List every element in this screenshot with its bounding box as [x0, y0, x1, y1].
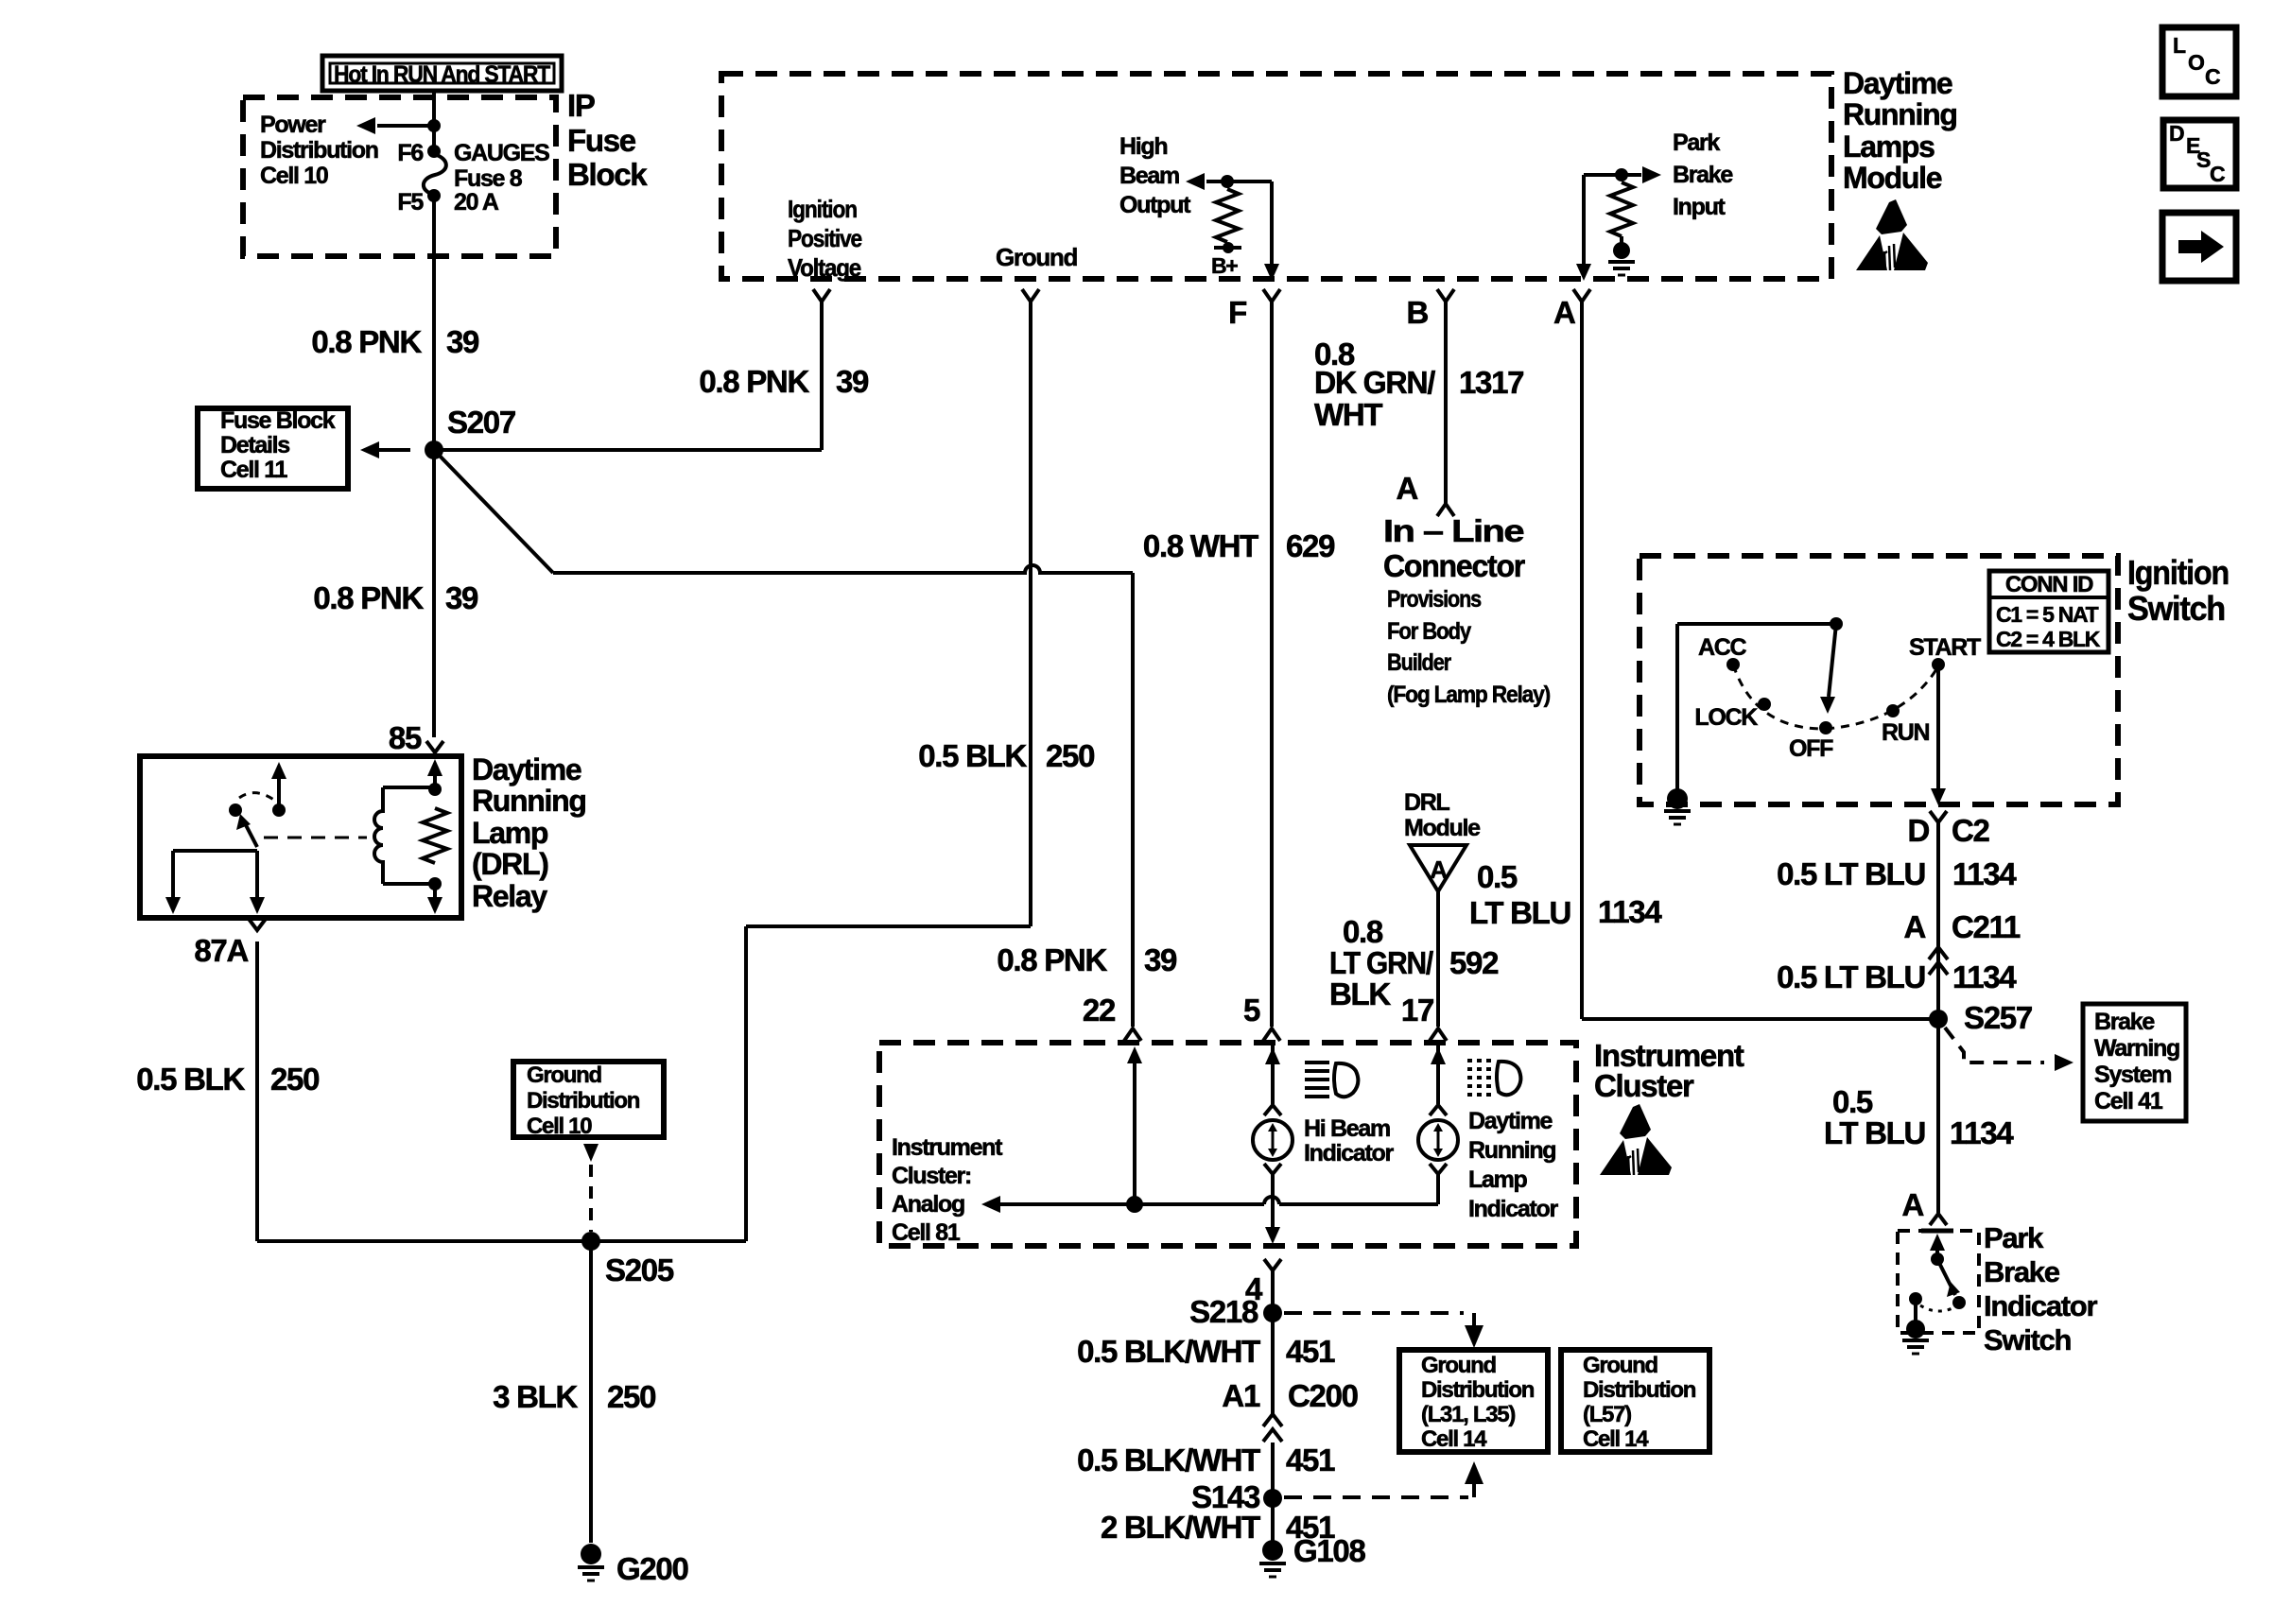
svg-text:START: START	[1909, 634, 1981, 661]
svg-text:Cell 81: Cell 81	[892, 1219, 961, 1246]
svg-text:3 BLK: 3 BLK	[493, 1379, 578, 1414]
svg-text:C1 = 5 NAT: C1 = 5 NAT	[1996, 602, 2099, 627]
svg-text:2 BLK/WHT: 2 BLK/WHT	[1101, 1510, 1260, 1545]
svg-text:S: S	[2196, 147, 2211, 172]
svg-text:0.8: 0.8	[1343, 914, 1383, 949]
svg-text:Ground: Ground	[1583, 1353, 1657, 1378]
svg-text:Cluster: Cluster	[1594, 1068, 1694, 1103]
svg-text:Block: Block	[567, 157, 648, 192]
svg-text:20 A: 20 A	[454, 189, 499, 216]
svg-text:Input: Input	[1673, 194, 1726, 220]
svg-text:1134: 1134	[1950, 1115, 2014, 1150]
svg-text:Cluster:: Cluster:	[892, 1163, 971, 1189]
svg-text:1134: 1134	[1598, 894, 1662, 929]
svg-text:Instrument: Instrument	[892, 1134, 1003, 1161]
svg-text:RUN: RUN	[1882, 719, 1930, 746]
svg-text:22: 22	[1083, 993, 1116, 1028]
svg-text:A: A	[1430, 855, 1448, 884]
svg-text:0.5 LT BLU: 0.5 LT BLU	[1777, 959, 1925, 994]
svg-text:GAUGES: GAUGES	[454, 140, 549, 166]
svg-text:Voltage: Voltage	[788, 253, 861, 282]
svg-text:WHT: WHT	[1314, 397, 1382, 432]
svg-text:1134: 1134	[1952, 856, 2017, 891]
svg-text:250: 250	[270, 1062, 319, 1097]
svg-text:0.5: 0.5	[1477, 859, 1518, 894]
svg-text:Module: Module	[1843, 161, 1942, 195]
svg-text:1134: 1134	[1952, 959, 2017, 994]
svg-text:G200: G200	[616, 1551, 688, 1586]
svg-text:(L57): (L57)	[1583, 1402, 1631, 1427]
svg-text:Running: Running	[1468, 1137, 1555, 1164]
svg-text:Daytime: Daytime	[1468, 1108, 1553, 1134]
svg-text:39: 39	[836, 364, 869, 399]
svg-text:Analog: Analog	[892, 1191, 964, 1218]
svg-text:C2: C2	[1952, 813, 1990, 848]
svg-text:B+: B+	[1211, 253, 1238, 278]
svg-text:Park: Park	[1984, 1221, 2044, 1254]
svg-text:Cell 11: Cell 11	[220, 457, 288, 483]
svg-text:A: A	[1903, 909, 1925, 944]
svg-text:ACC: ACC	[1698, 634, 1747, 661]
svg-text:Positive: Positive	[788, 224, 862, 252]
svg-text:Fuse Block: Fuse Block	[220, 407, 336, 434]
svg-text:Details: Details	[220, 432, 289, 458]
svg-text:C: C	[2210, 162, 2225, 186]
svg-text:250: 250	[607, 1379, 655, 1414]
svg-text:Daytime: Daytime	[1843, 66, 1952, 100]
svg-text:Indicator: Indicator	[1468, 1196, 1558, 1222]
svg-text:(Fog Lamp Relay): (Fog Lamp Relay)	[1387, 682, 1551, 708]
svg-text:0.5 LT BLU: 0.5 LT BLU	[1777, 856, 1925, 891]
svg-text:C211: C211	[1952, 909, 2021, 944]
svg-text:Lamp: Lamp	[1468, 1166, 1528, 1193]
svg-text:C200: C200	[1288, 1378, 1358, 1413]
svg-text:In – Line: In – Line	[1383, 513, 1524, 548]
svg-text:250: 250	[1046, 738, 1094, 773]
svg-text:0.5 BLK/WHT: 0.5 BLK/WHT	[1077, 1443, 1260, 1477]
svg-text:LT GRN/: LT GRN/	[1329, 945, 1433, 980]
svg-text:S218: S218	[1189, 1294, 1258, 1329]
svg-text:0.8 PNK: 0.8 PNK	[699, 364, 809, 399]
svg-text:0.8 PNK: 0.8 PNK	[313, 580, 424, 615]
svg-text:39: 39	[446, 324, 479, 359]
svg-text:Fuse: Fuse	[567, 123, 636, 158]
svg-text:39: 39	[445, 580, 478, 615]
svg-text:System: System	[2094, 1062, 2171, 1088]
svg-text:F: F	[1228, 295, 1246, 330]
svg-text:BLK: BLK	[1329, 976, 1391, 1011]
svg-text:O: O	[2188, 50, 2204, 75]
svg-text:Output: Output	[1119, 192, 1191, 218]
svg-text:Switch: Switch	[2127, 589, 2225, 628]
svg-text:Running: Running	[472, 784, 586, 818]
svg-text:Distribution: Distribution	[260, 137, 378, 164]
svg-text:Daytime: Daytime	[472, 752, 581, 786]
svg-text:Brake: Brake	[1984, 1255, 2060, 1288]
svg-text:Ignition: Ignition	[788, 195, 857, 223]
svg-text:S257: S257	[1964, 1000, 2032, 1035]
svg-text:S207: S207	[447, 405, 515, 440]
svg-text:High: High	[1119, 133, 1167, 160]
svg-text:A: A	[1901, 1187, 1923, 1222]
svg-text:Distribution: Distribution	[527, 1088, 640, 1114]
svg-text:Indicator: Indicator	[1304, 1140, 1394, 1166]
svg-text:Power: Power	[260, 112, 326, 138]
svg-text:Indicator: Indicator	[1984, 1289, 2097, 1322]
svg-text:0.5 BLK: 0.5 BLK	[136, 1062, 245, 1097]
svg-text:17: 17	[1401, 993, 1433, 1028]
svg-text:LT BLU: LT BLU	[1469, 895, 1570, 930]
svg-text:F6: F6	[397, 140, 423, 166]
svg-text:85: 85	[389, 720, 422, 755]
svg-text:DRL: DRL	[1404, 789, 1450, 816]
svg-text:G108: G108	[1293, 1533, 1365, 1568]
svg-text:A: A	[1396, 471, 1417, 506]
svg-text:Switch: Switch	[1984, 1323, 2071, 1356]
svg-text:0.5: 0.5	[1832, 1084, 1873, 1119]
svg-text:629: 629	[1286, 528, 1335, 563]
svg-text:IP: IP	[567, 88, 595, 123]
svg-text:(L31, L35): (L31, L35)	[1421, 1402, 1515, 1427]
svg-text:LOCK: LOCK	[1694, 704, 1758, 731]
svg-text:Fuse 8: Fuse 8	[454, 165, 523, 192]
svg-text:A1: A1	[1222, 1378, 1260, 1413]
svg-text:1317: 1317	[1459, 365, 1523, 400]
svg-text:B: B	[1406, 295, 1428, 330]
svg-text:Relay: Relay	[472, 879, 547, 913]
svg-text:Ignition: Ignition	[2127, 553, 2229, 592]
svg-text:S205: S205	[605, 1253, 674, 1287]
svg-text:Builder: Builder	[1387, 649, 1451, 676]
svg-text:Cell 41: Cell 41	[2094, 1088, 2163, 1114]
svg-text:Ground: Ground	[996, 243, 1077, 271]
svg-text:592: 592	[1449, 945, 1499, 980]
svg-text:Hot In RUN And START: Hot In RUN And START	[334, 61, 550, 88]
svg-text:87A: 87A	[194, 933, 248, 968]
svg-text:Warning: Warning	[2094, 1035, 2179, 1062]
svg-text:0.8 PNK: 0.8 PNK	[997, 942, 1107, 977]
svg-text:5: 5	[1243, 993, 1260, 1028]
svg-text:0.8 WHT: 0.8 WHT	[1143, 528, 1258, 563]
svg-text:0.5 BLK/WHT: 0.5 BLK/WHT	[1077, 1334, 1260, 1369]
svg-text:D: D	[1907, 813, 1929, 848]
svg-text:39: 39	[1144, 942, 1177, 977]
svg-text:0.8 PNK: 0.8 PNK	[311, 324, 422, 359]
svg-text:(DRL): (DRL)	[472, 847, 548, 881]
svg-text:Cell 14: Cell 14	[1421, 1426, 1487, 1452]
svg-text:Lamp: Lamp	[472, 816, 548, 850]
svg-text:CONN ID: CONN ID	[2005, 572, 2093, 597]
svg-text:Cell 10: Cell 10	[527, 1114, 592, 1139]
svg-text:451: 451	[1286, 1334, 1335, 1369]
svg-text:Ground: Ground	[1421, 1353, 1496, 1378]
svg-text:DK GRN/: DK GRN/	[1314, 365, 1435, 400]
svg-text:0.5 BLK: 0.5 BLK	[918, 738, 1027, 773]
svg-text:Cell 14: Cell 14	[1583, 1426, 1649, 1452]
svg-text:For Body: For Body	[1387, 618, 1471, 645]
svg-text:451: 451	[1286, 1443, 1335, 1477]
svg-text:L: L	[2173, 33, 2186, 58]
svg-text:Distribution: Distribution	[1421, 1377, 1535, 1403]
svg-text:Lamps: Lamps	[1843, 130, 1935, 164]
svg-text:A: A	[1553, 295, 1575, 330]
svg-text:Running: Running	[1843, 97, 1957, 131]
svg-text:Cell 10: Cell 10	[260, 163, 328, 189]
svg-text:OFF: OFF	[1789, 735, 1833, 762]
svg-text:Module: Module	[1404, 815, 1481, 841]
svg-text:Ground: Ground	[527, 1063, 601, 1088]
svg-text:Beam: Beam	[1119, 163, 1179, 189]
svg-text:Brake: Brake	[2094, 1009, 2155, 1035]
svg-text:C: C	[2205, 64, 2220, 89]
svg-text:Hi Beam: Hi Beam	[1304, 1115, 1390, 1142]
svg-text:Park: Park	[1673, 130, 1720, 156]
svg-text:F5: F5	[397, 189, 424, 216]
svg-text:LT BLU: LT BLU	[1824, 1115, 1925, 1150]
svg-text:D: D	[2169, 121, 2184, 146]
svg-text:Provisions: Provisions	[1387, 586, 1481, 613]
svg-text:Distribution: Distribution	[1583, 1377, 1696, 1403]
svg-text:C2 = 4 BLK: C2 = 4 BLK	[1996, 627, 2101, 651]
svg-text:Connector: Connector	[1383, 548, 1525, 583]
svg-text:Brake: Brake	[1673, 162, 1733, 188]
